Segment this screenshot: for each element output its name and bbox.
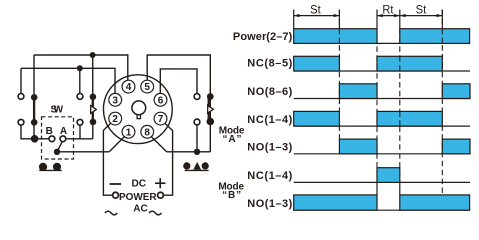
svg-text:St: St <box>416 4 427 16</box>
svg-text:2: 2 <box>112 114 118 125</box>
svg-text:4: 4 <box>126 82 132 93</box>
svg-text:5: 5 <box>144 82 150 93</box>
svg-text:NC(1–4): NC(1–4) <box>247 170 292 182</box>
svg-text:B: B <box>46 126 53 137</box>
svg-text:NO(1–3): NO(1–3) <box>247 198 292 210</box>
svg-text:SW: SW <box>51 105 64 116</box>
svg-text:1: 1 <box>126 127 132 138</box>
svg-text:Power(2–7): Power(2–7) <box>233 31 293 43</box>
svg-text:3: 3 <box>112 95 118 106</box>
svg-text:NO(1–3): NO(1–3) <box>247 141 292 153</box>
svg-text:DC: DC <box>132 179 147 190</box>
svg-text:St: St <box>310 4 321 16</box>
svg-text:Rt: Rt <box>382 4 394 16</box>
svg-text:POWER: POWER <box>119 192 157 203</box>
svg-text:NO(8–6): NO(8–6) <box>247 86 292 98</box>
svg-text:7: 7 <box>158 114 164 125</box>
svg-text:A: A <box>60 126 67 137</box>
svg-text:“A”: “A” <box>223 134 242 145</box>
svg-text:NC(8–5): NC(8–5) <box>247 57 292 69</box>
svg-text:6: 6 <box>158 95 164 106</box>
svg-text:8: 8 <box>144 127 150 138</box>
svg-text:NC(1–4): NC(1–4) <box>247 114 292 126</box>
svg-text:AC: AC <box>133 203 148 214</box>
svg-text:“B”: “B” <box>222 190 241 201</box>
